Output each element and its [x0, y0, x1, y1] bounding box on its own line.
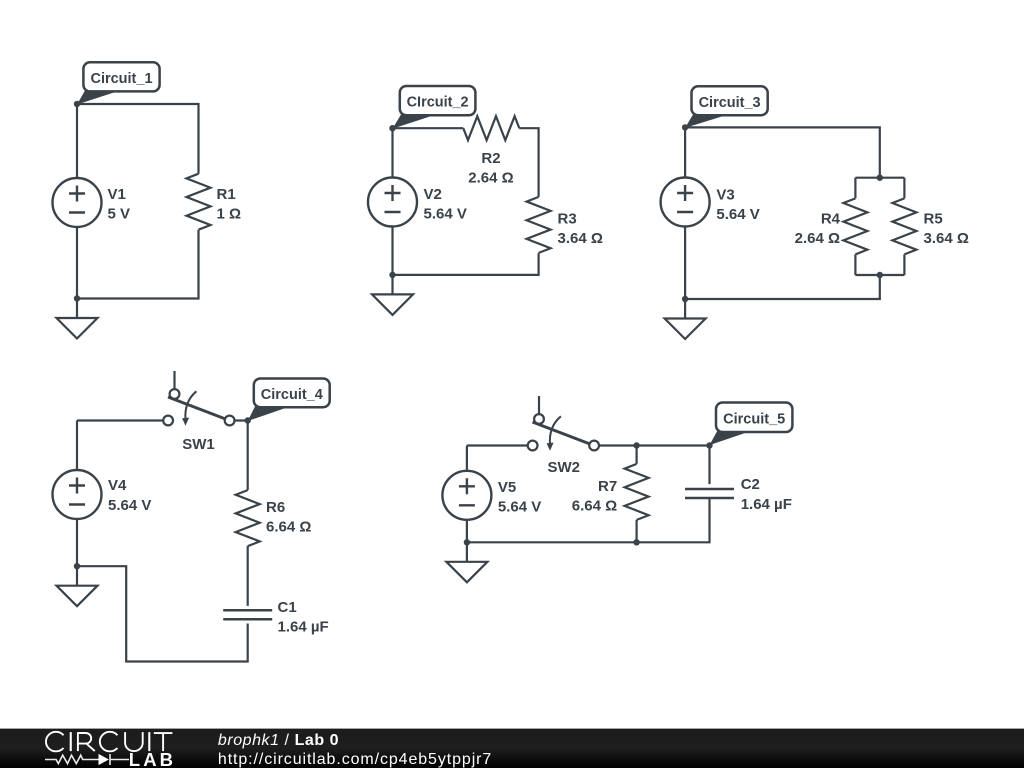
svg-text:C1: C1: [278, 599, 297, 616]
svg-text:LAB: LAB: [129, 749, 176, 768]
svg-text:2.64 Ω: 2.64 Ω: [468, 169, 513, 186]
svg-text:SW1: SW1: [182, 436, 215, 453]
svg-text:R5: R5: [924, 211, 943, 228]
svg-text:5.64 V: 5.64 V: [498, 499, 541, 516]
svg-text:R2: R2: [481, 150, 500, 167]
svg-text:R6: R6: [266, 499, 285, 516]
svg-text:V5: V5: [498, 479, 516, 496]
svg-text:V2: V2: [424, 186, 442, 203]
svg-text:2.64 Ω: 2.64 Ω: [795, 230, 840, 247]
svg-text:R1: R1: [217, 186, 236, 203]
svg-text:5 V: 5 V: [108, 206, 131, 223]
svg-text:6.64 Ω: 6.64 Ω: [266, 519, 311, 536]
svg-text:R7: R7: [598, 478, 617, 495]
svg-text:V3: V3: [716, 187, 734, 204]
svg-text:http://circuitlab.com/cp4eb5yt: http://circuitlab.com/cp4eb5ytppjr7: [218, 751, 492, 768]
svg-text:3.64 Ω: 3.64 Ω: [558, 230, 603, 247]
svg-text:V4: V4: [108, 477, 127, 494]
svg-text:CIrcuit_2: CIrcuit_2: [407, 95, 469, 111]
svg-text:brophk1 / Lab 0: brophk1 / Lab 0: [218, 732, 339, 749]
svg-text:R4: R4: [821, 211, 841, 228]
svg-text:Circuit_3: Circuit_3: [699, 95, 761, 111]
svg-text:5.64 V: 5.64 V: [424, 206, 467, 223]
svg-text:1 Ω: 1 Ω: [217, 206, 242, 223]
svg-text:Circuit_1: Circuit_1: [90, 71, 152, 87]
svg-text:5.64 V: 5.64 V: [716, 206, 759, 223]
svg-text:V1: V1: [108, 186, 126, 203]
svg-text:Circuit_5: Circuit_5: [723, 411, 785, 427]
svg-text:3.64 Ω: 3.64 Ω: [924, 230, 969, 247]
svg-text:SW2: SW2: [547, 459, 580, 476]
svg-text:1.64 µF: 1.64 µF: [741, 496, 792, 513]
svg-text:C2: C2: [741, 476, 760, 493]
svg-text:5.64 V: 5.64 V: [108, 497, 151, 514]
svg-text:Circuit_4: Circuit_4: [261, 387, 323, 403]
svg-text:6.64 Ω: 6.64 Ω: [572, 498, 617, 515]
svg-text:1.64 µF: 1.64 µF: [278, 619, 329, 636]
svg-text:R3: R3: [558, 211, 577, 228]
